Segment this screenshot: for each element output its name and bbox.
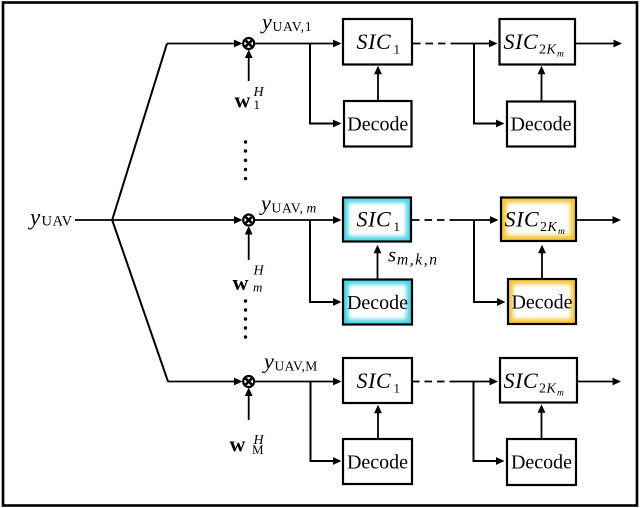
wire multiplier to SIC1 row2 — [254, 216, 341, 224]
wire branch down to Decode row3 — [310, 382, 342, 465]
wire yUAV input — [75, 219, 112, 221]
wire wM arrow up into multiplier — [245, 388, 253, 421]
dots upper — [244, 140, 247, 180]
wire branch down to Decode2 row2 — [473, 220, 506, 306]
svg-text:M: M — [252, 442, 264, 457]
wire Decode2 to SIC2Km row3 — [538, 404, 546, 438]
svg-text:1: 1 — [254, 97, 261, 112]
wire multiplier to SIC1 row1 — [254, 40, 341, 48]
wire to multiplier row3 — [168, 378, 243, 386]
wire dashed SIC1 to junction row1 — [413, 43, 453, 45]
svg-text:SIC: SIC — [357, 29, 392, 54]
block SIC1 row3 — [343, 358, 412, 403]
block Decode row2 (cyan) — [343, 280, 412, 325]
svg-text:Decode: Decode — [347, 292, 408, 314]
wire junction to SIC2Km row2 — [452, 216, 499, 224]
label wM^H — [230, 432, 265, 458]
block SIC1 row1 — [343, 19, 412, 65]
svg-text:SIC: SIC — [357, 206, 392, 231]
svg-text:SIC: SIC — [357, 368, 392, 393]
wire to multiplier row2 — [112, 216, 243, 224]
svg-text:2: 2 — [539, 43, 546, 58]
svg-text:Decode: Decode — [511, 452, 572, 474]
svg-text:m: m — [558, 227, 565, 237]
wire wm arrow up into multiplier — [245, 226, 253, 260]
svg-text:K: K — [547, 220, 558, 235]
svg-text:UAV,1: UAV,1 — [273, 19, 313, 34]
wire Decode2 to SIC2Km row1 — [538, 66, 546, 101]
svg-text:K: K — [546, 43, 557, 58]
wire output row1 — [575, 40, 622, 48]
multiplier Xm — [243, 215, 254, 226]
wire dashed SIC1 to junction row2 — [412, 219, 453, 221]
svg-text:2: 2 — [539, 382, 546, 397]
block Decode row3 — [343, 439, 412, 484]
wire output row3 — [578, 378, 621, 386]
svg-text:y: y — [262, 349, 274, 374]
block SIC2Km row2 (orange) — [501, 198, 576, 242]
svg-text:1: 1 — [394, 42, 401, 57]
wire multiplier to SIC1 row3 — [254, 378, 341, 386]
svg-text:m,k,n: m,k,n — [397, 252, 439, 269]
svg-text:SIC: SIC — [504, 29, 539, 54]
wire branch down to Decode row1 — [309, 44, 342, 128]
label yUAV,m — [259, 191, 317, 216]
wire branch diagonal down — [112, 220, 168, 382]
svg-text:UAV,M: UAV,M — [275, 359, 318, 374]
svg-text:SIC: SIC — [504, 368, 539, 393]
label yUAV,M — [262, 349, 318, 374]
block Decode2 row2 (orange) — [508, 279, 576, 324]
label s_mkn — [388, 243, 439, 269]
svg-text:Decode: Decode — [347, 452, 408, 474]
svg-text:SIC: SIC — [505, 206, 540, 231]
block SIC2Km row1 — [500, 19, 576, 65]
wire Decode2 to SIC2Km row2 — [538, 245, 546, 278]
wire output row2 — [577, 216, 621, 224]
svg-text:m: m — [253, 280, 262, 295]
svg-text:s: s — [388, 243, 396, 267]
svg-text:H: H — [253, 264, 265, 279]
wire Decode to SIC1 row3 — [374, 405, 382, 438]
svg-text:Decode: Decode — [347, 114, 408, 136]
dots lower — [244, 299, 247, 338]
block Decode2 row1 — [507, 102, 575, 147]
svg-text:m: m — [307, 201, 317, 216]
wire junction to SIC2Km row3 — [452, 378, 498, 386]
wire dashed SIC1 to junction row3 — [412, 381, 453, 383]
wire w1 arrow up into multiplier — [245, 50, 253, 82]
svg-text:y: y — [259, 191, 271, 216]
block Decode2 row3 — [507, 439, 576, 485]
svg-text:1: 1 — [394, 219, 401, 234]
wire branch down to Decode row2 — [309, 220, 342, 306]
svg-text:m: m — [557, 389, 564, 399]
multiplier XM — [243, 376, 254, 387]
svg-text:y: y — [260, 9, 272, 34]
multiplier X1 — [243, 38, 254, 49]
svg-text:w: w — [235, 88, 251, 113]
block SIC1 row2 (cyan) — [343, 198, 411, 242]
block Decode row1 — [344, 101, 412, 147]
svg-text:Decode: Decode — [511, 114, 572, 136]
svg-text:1: 1 — [394, 381, 401, 396]
label yUAV,1 — [260, 9, 312, 34]
label wm^H — [233, 264, 265, 296]
wire to multiplier row1 — [167, 40, 243, 48]
svg-text:Decode: Decode — [512, 292, 573, 314]
wire junction to SIC2Km row1 — [452, 40, 498, 48]
wire Decode to SIC1 row2 — [374, 245, 382, 279]
svg-text:UAV: UAV — [42, 214, 73, 230]
svg-text:K: K — [546, 382, 557, 397]
svg-text:UAV,: UAV, — [272, 201, 304, 216]
node yUAV label — [28, 205, 73, 230]
svg-text:w: w — [233, 270, 249, 295]
block SIC2Km row3 — [500, 358, 577, 403]
label w1^H — [235, 85, 265, 113]
wire Decode to SIC1 row1 — [374, 66, 382, 100]
wire branch diagonal up — [112, 44, 167, 221]
svg-text:w: w — [230, 432, 246, 457]
svg-text:2: 2 — [540, 220, 547, 235]
wire branch down to Decode2 row1 — [473, 44, 505, 128]
wire branch down to Decode2 row3 — [473, 382, 505, 465]
svg-text:y: y — [28, 205, 41, 230]
svg-text:m: m — [557, 50, 564, 60]
